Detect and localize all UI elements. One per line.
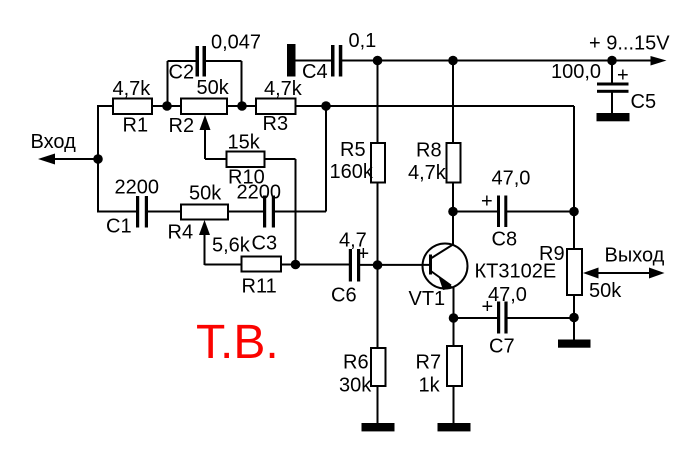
potentiometer R9 wiper arrow and output line	[583, 268, 665, 279]
capacitor C4 thick plate	[287, 44, 296, 77]
resistor R7	[447, 346, 462, 386]
node C	[321, 101, 331, 111]
svg-text:C1: C1	[106, 216, 132, 238]
wire node E to ground	[573, 318, 575, 340]
node input junction	[93, 154, 103, 164]
wire collector to C8	[453, 211, 497, 213]
svg-text:C4: C4	[302, 61, 328, 83]
label 2200 C1	[115, 177, 160, 199]
svg-text:50k: 50k	[589, 280, 622, 302]
wire input arrowhead	[38, 154, 55, 165]
wire C7 to node E	[507, 317, 574, 319]
label C3	[252, 233, 278, 255]
ground R7	[438, 423, 471, 431]
resistor R1	[113, 99, 152, 115]
label 50k R2	[197, 77, 230, 99]
node A	[162, 101, 172, 111]
wire R9 bottom	[573, 295, 575, 318]
potentiometer R4 wiper arrow	[199, 220, 210, 265]
svg-text:0,1: 0,1	[349, 30, 377, 52]
capacitor C2	[196, 46, 207, 77]
node B	[237, 101, 247, 111]
svg-text:+ 9...15V: + 9...15V	[589, 33, 670, 55]
svg-text:C8: C8	[492, 229, 518, 251]
ground R9	[558, 340, 591, 348]
svg-text:Вход: Вход	[31, 131, 77, 153]
svg-text:C3: C3	[252, 233, 278, 255]
potentiometer R4	[181, 205, 228, 220]
svg-text:C5: C5	[631, 91, 657, 113]
capacitor C3	[263, 196, 275, 228]
wire C2 right horizontal	[205, 60, 242, 62]
wire R5 bottom to base node	[377, 183, 379, 266]
svg-text:R6: R6	[343, 352, 369, 374]
wire R3 to node C	[296, 105, 327, 107]
svg-text:47,0: 47,0	[492, 168, 531, 190]
label R6	[343, 352, 369, 374]
label C7	[489, 336, 515, 358]
label C2	[169, 62, 195, 84]
capacitor C4	[331, 45, 342, 77]
svg-text:2200: 2200	[237, 182, 282, 204]
label R3	[263, 113, 289, 135]
wire R7 bottom	[453, 386, 455, 424]
svg-text:VT1: VT1	[409, 288, 446, 310]
svg-text:15k: 15k	[228, 132, 261, 154]
resistor R6	[371, 348, 386, 386]
label 4,7k R3	[264, 78, 303, 100]
label 100,0	[551, 61, 601, 83]
label C4	[302, 61, 328, 83]
wire R4 wiper to R11	[205, 264, 242, 266]
label supply +9...15V	[589, 33, 670, 55]
label C5	[631, 91, 657, 113]
resistor R10	[227, 152, 265, 168]
label R4	[168, 222, 194, 244]
label 47,0 C8	[492, 168, 531, 190]
capacitor C8	[497, 196, 507, 228]
wire R1 to node A	[152, 105, 167, 107]
wire C8 to node D	[507, 211, 574, 213]
wire C5 stem top	[611, 61, 613, 84]
wire input arrow line	[52, 158, 98, 160]
label 1k	[419, 375, 441, 397]
wire C1 left	[97, 211, 137, 213]
node rail R8	[448, 56, 458, 66]
wire x574 vertical to R9	[573, 106, 575, 249]
label 0,1	[349, 30, 377, 52]
wire R11 to node F	[281, 264, 296, 266]
wire C4 left	[296, 60, 332, 62]
potentiometer R9	[567, 249, 582, 295]
wire emitter to C7	[454, 317, 498, 319]
transistor VT1	[423, 244, 468, 291]
wire x326 vertical	[325, 106, 327, 212]
wire C5 stem bottom	[611, 93, 613, 115]
wire supply rail	[342, 60, 655, 62]
wire C3 to x326	[275, 211, 326, 213]
capacitor C1	[136, 196, 148, 228]
label C5 plus	[617, 65, 629, 87]
resistor R5	[371, 143, 385, 183]
wire C6 to base	[360, 264, 430, 266]
svg-text:Выход: Выход	[605, 245, 665, 267]
label 15k	[228, 132, 261, 154]
label 4,7k R8	[408, 162, 447, 184]
svg-text:30k: 30k	[339, 375, 372, 397]
wire base node to R6	[377, 265, 379, 348]
svg-text:160k: 160k	[330, 161, 374, 183]
wire R10 left	[205, 158, 227, 160]
svg-text:C6: C6	[331, 285, 357, 307]
node emitter	[449, 313, 459, 323]
svg-text:+: +	[482, 296, 494, 318]
svg-text:C2: C2	[169, 62, 195, 84]
capacitor C5	[597, 83, 629, 93]
node base	[373, 260, 383, 270]
label C8 plus	[481, 191, 493, 213]
svg-text:+: +	[617, 65, 629, 87]
wire R10 right	[265, 158, 296, 160]
label 4,7k R1	[113, 78, 152, 100]
wire node B to R3	[242, 105, 256, 107]
label Т.В. watermark	[196, 316, 279, 369]
wire emitter to R7	[453, 318, 455, 346]
svg-text:C7: C7	[489, 336, 515, 358]
svg-text:R8: R8	[416, 140, 442, 162]
wire C1 to R4	[148, 211, 181, 213]
ground C5	[597, 113, 630, 121]
wire C2 left horizontal	[168, 60, 197, 62]
node rail R5	[373, 56, 383, 66]
label 5,6k	[212, 235, 251, 257]
label C6 plus	[358, 243, 370, 265]
resistor R11	[242, 257, 282, 272]
wire node F to C6	[296, 264, 350, 266]
label R7	[416, 352, 442, 374]
svg-text:0,047: 0,047	[211, 32, 261, 54]
wire R6 bottom	[377, 386, 379, 424]
potentiometer R2	[181, 99, 227, 115]
label 160k	[330, 161, 374, 183]
wire emitter vertical	[453, 287, 455, 318]
svg-text:47,0: 47,0	[488, 284, 527, 306]
wire C2 right vertical	[241, 61, 243, 106]
wire supply arrowhead	[651, 56, 667, 66]
label 30k	[339, 375, 372, 397]
label 47,0 C7	[488, 284, 527, 306]
svg-text:+: +	[481, 191, 493, 213]
node E output ground	[569, 313, 579, 323]
wire R8 bottom to collector	[452, 183, 454, 213]
node rail C5	[607, 56, 617, 66]
label 0,047	[211, 32, 261, 54]
label R10	[228, 167, 265, 189]
wire input vertical x=98	[97, 106, 99, 212]
label R11	[242, 276, 277, 298]
svg-text:5,6k: 5,6k	[212, 235, 251, 257]
wire R5 top	[377, 61, 379, 144]
label C1	[106, 216, 132, 238]
label 50k R4	[189, 183, 222, 205]
resistor R3	[256, 99, 296, 115]
wire node A to R2	[167, 105, 181, 107]
svg-text:R5: R5	[340, 139, 366, 161]
wire node C to x574	[326, 105, 574, 107]
svg-text:4,7k: 4,7k	[264, 78, 303, 100]
resistor R8	[447, 143, 461, 183]
svg-text:2200: 2200	[115, 177, 160, 199]
label R8	[416, 140, 442, 162]
label VT1	[409, 288, 446, 310]
wire R8 top	[452, 61, 454, 144]
label R2	[169, 115, 195, 137]
label Выход	[605, 245, 665, 267]
node F	[291, 260, 301, 270]
ground R6	[362, 423, 395, 431]
potentiometer R2 wiper arrow	[200, 115, 211, 159]
label R5	[340, 139, 366, 161]
wire R4 to C3	[228, 211, 264, 213]
label C6	[331, 285, 357, 307]
label Вход	[31, 131, 77, 153]
wire R10 node vertical x295	[295, 159, 297, 265]
label 50k R9	[589, 280, 622, 302]
label КТ3102Е	[475, 261, 557, 283]
wire R1 left	[97, 105, 113, 107]
svg-text:R9: R9	[539, 243, 565, 265]
svg-text:R1: R1	[123, 115, 149, 137]
wire C2 left vertical	[167, 61, 169, 106]
svg-text:R2: R2	[169, 115, 195, 137]
svg-text:50k: 50k	[197, 77, 230, 99]
label 4,7 C6	[339, 230, 367, 252]
svg-text:4,7k: 4,7k	[408, 162, 447, 184]
svg-text:R4: R4	[168, 222, 194, 244]
svg-text:1k: 1k	[419, 375, 441, 397]
capacitor C7	[497, 302, 508, 334]
node collector	[448, 207, 458, 217]
svg-text:Т.В.: Т.В.	[196, 316, 279, 369]
svg-text:R7: R7	[416, 352, 442, 374]
label 2200 C3	[237, 182, 282, 204]
svg-text:4,7k: 4,7k	[113, 78, 152, 100]
label R1	[123, 115, 149, 137]
label C7 plus	[482, 296, 494, 318]
svg-text:R3: R3	[263, 113, 289, 135]
svg-text:R11: R11	[242, 276, 277, 298]
label R9	[539, 243, 565, 265]
svg-text:50k: 50k	[189, 183, 222, 205]
wire collector to transistor	[452, 212, 454, 246]
svg-text:100,0: 100,0	[551, 61, 601, 83]
wire R2 to node B	[227, 105, 242, 107]
label C8	[492, 229, 518, 251]
node D	[569, 207, 579, 217]
svg-text:+: +	[358, 243, 370, 265]
capacitor C6	[349, 249, 360, 282]
